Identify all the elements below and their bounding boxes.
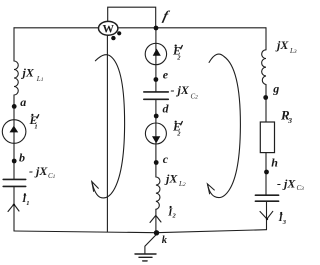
svg-text:jX: jX bbox=[164, 171, 178, 185]
svg-text:2: 2 bbox=[176, 130, 181, 137]
node d bbox=[154, 114, 159, 119]
wattmeter W ellipse bbox=[99, 21, 118, 35]
svg-text:g: g bbox=[272, 81, 279, 95]
wire right branch upper segment bbox=[265, 28, 267, 50]
svg-text:C1: C1 bbox=[48, 172, 56, 180]
inductor jX_L1 bbox=[14, 61, 18, 95]
ground bar 1 bbox=[135, 253, 156, 255]
ground lead diagonal from node k bbox=[145, 235, 156, 254]
svg-text:C2: C2 bbox=[191, 93, 199, 101]
svg-text:W: W bbox=[102, 24, 114, 36]
wire right branch segment resistor to capacitor bbox=[265, 153, 267, 195]
svg-text:L1: L1 bbox=[36, 75, 44, 83]
node h bbox=[264, 170, 269, 175]
svg-text:e: e bbox=[163, 68, 169, 82]
wire right branch segment to resistor bbox=[265, 85, 267, 123]
svg-text:- jX: - jX bbox=[171, 83, 190, 97]
source E1' circle bbox=[2, 120, 26, 144]
wire middle-left vertical (under wattmeter) bbox=[106, 35, 108, 232]
svg-text:3: 3 bbox=[287, 116, 292, 125]
capacitor C2 plates bbox=[144, 92, 169, 99]
svg-text:2: 2 bbox=[176, 54, 181, 61]
svg-text:jX: jX bbox=[21, 65, 35, 79]
wire middle branch f to capacitor C2 bbox=[155, 28, 157, 92]
svg-text:k: k bbox=[162, 235, 168, 246]
current arrow I3 tip dot bbox=[266, 218, 268, 220]
wire left branch upper segment bbox=[13, 28, 15, 61]
svg-text:3: 3 bbox=[282, 219, 287, 226]
svg-text:h: h bbox=[271, 156, 278, 170]
wattmeter potential-coil loop bbox=[108, 7, 156, 28]
mesh arrow right arrowhead bbox=[207, 184, 214, 194]
node g bbox=[263, 95, 268, 100]
inductor jX_L2 bbox=[156, 177, 160, 209]
svg-text:1: 1 bbox=[34, 123, 37, 130]
node f bbox=[154, 26, 159, 31]
capacitor C1 plates bbox=[3, 179, 26, 186]
wire middle branch lower segment to node k bbox=[155, 209, 157, 232]
current arrow I1 chevron bbox=[8, 204, 19, 211]
svg-text:C3: C3 bbox=[297, 184, 305, 192]
resistor R3 body bbox=[260, 122, 274, 153]
svg-text:- jX: - jX bbox=[277, 177, 296, 191]
mesh arrow left arrowhead bbox=[92, 182, 99, 192]
svg-text:L3: L3 bbox=[289, 47, 297, 55]
source E1' arrow (up) bbox=[10, 126, 19, 133]
svg-text:- jX: - jX bbox=[29, 164, 48, 178]
node a bbox=[12, 104, 17, 109]
wire top bus bbox=[14, 27, 266, 29]
ground bar 2 bbox=[139, 256, 152, 258]
svg-text:jX: jX bbox=[275, 38, 289, 52]
mesh arrow right loop bbox=[208, 54, 241, 198]
source E2' bottom arrow (down) bbox=[152, 136, 160, 143]
wattmeter polarity dot 1 bbox=[117, 31, 121, 35]
inductor jX_L3 bbox=[262, 50, 266, 85]
current arrow I2 chevron bbox=[150, 215, 161, 222]
ground bar 3 bbox=[143, 260, 147, 262]
wire right branch lower segment bbox=[266, 201, 268, 230]
node k bbox=[154, 230, 159, 235]
wire left branch middle segment (through node a, source E1, node b) bbox=[13, 95, 15, 179]
node b bbox=[12, 159, 17, 164]
svg-text:a: a bbox=[20, 95, 26, 109]
wire middle branch capacitor to inductor (through d, source, c) bbox=[155, 99, 157, 177]
svg-text:f: f bbox=[161, 8, 171, 23]
wire bottom bus bbox=[14, 230, 266, 233]
svg-text:1: 1 bbox=[26, 200, 29, 207]
wattmeter polarity dot 2 bbox=[111, 36, 115, 40]
source E2' top arrow (up) bbox=[153, 49, 161, 56]
capacitor C3 plates bbox=[255, 195, 278, 201]
svg-text:2: 2 bbox=[172, 213, 177, 220]
wire left branch lower segment bbox=[13, 186, 15, 231]
svg-text:L2: L2 bbox=[178, 180, 186, 188]
node c bbox=[154, 160, 159, 165]
svg-text:c: c bbox=[163, 152, 169, 166]
source E2' top circle bbox=[145, 43, 166, 64]
source E2' bottom circle bbox=[145, 123, 166, 144]
current arrow I3 chevron (down) bbox=[260, 211, 273, 219]
mesh arrow left loop bbox=[92, 55, 125, 198]
svg-text:b: b bbox=[19, 150, 25, 164]
node e bbox=[154, 77, 159, 82]
current arrow I1 tip dot bbox=[13, 204, 15, 206]
svg-text:d: d bbox=[163, 102, 170, 116]
